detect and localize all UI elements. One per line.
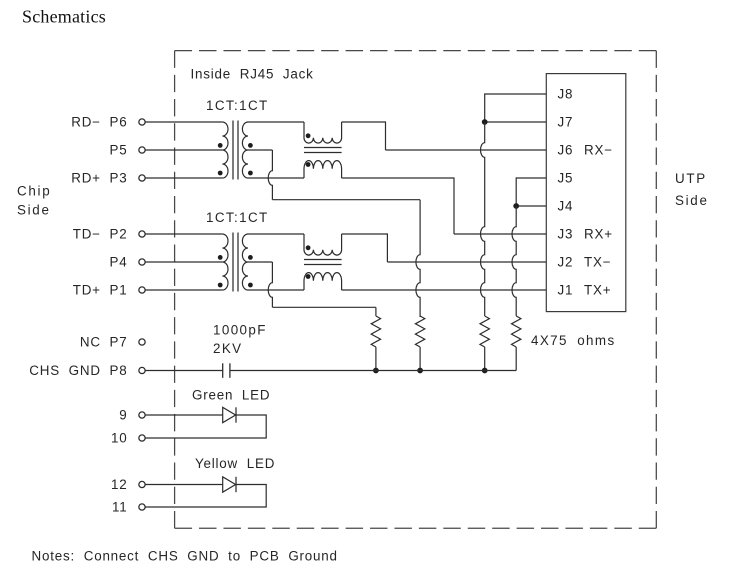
svg-text:J3: J3 <box>558 227 574 242</box>
transformer T1 primary dot upper <box>218 143 223 148</box>
svg-text:J4: J4 <box>558 199 574 214</box>
transformer T1 primary dot lower <box>218 171 223 176</box>
diode D2 yellow LED triangle <box>223 477 236 492</box>
wire P4 to T2 primary <box>145 261 222 263</box>
wire J5-J4 vertical down to R4 with hops <box>512 206 516 316</box>
wire choke L1 top out <box>342 122 386 150</box>
wire to J3 <box>454 233 546 235</box>
transformer T2 primary dot lower <box>218 283 223 288</box>
svg-text:1000pF: 1000pF <box>213 323 267 338</box>
pin circle P2 <box>139 231 145 237</box>
wire choke L2 bottom out to J1 <box>342 289 547 291</box>
wire choke L2 top out <box>342 234 388 262</box>
svg-text:J8: J8 <box>558 87 574 102</box>
wire J8 stub <box>485 94 547 122</box>
wire J4 stub <box>516 205 546 207</box>
svg-text:TD− P2: TD− P2 <box>73 227 128 242</box>
svg-text:J2: J2 <box>558 255 574 270</box>
svg-text:J5: J5 <box>558 171 574 186</box>
pin circle P5 <box>139 147 145 153</box>
svg-text:RD+ P3: RD+ P3 <box>71 171 127 186</box>
svg-text:TX+: TX+ <box>584 283 611 298</box>
diode D1 green LED triangle <box>223 407 236 422</box>
junction dot R2 rail <box>417 368 423 374</box>
transformer T1 primary winding <box>222 122 228 178</box>
transformer T1 core <box>232 121 234 180</box>
svg-text:CHS GND P8: CHS GND P8 <box>29 363 127 378</box>
wire T1 centre tap horizontal <box>272 199 420 201</box>
choke L1 top winding <box>304 122 342 143</box>
svg-text:RX+: RX+ <box>584 227 613 242</box>
svg-text:Yellow LED: Yellow LED <box>195 456 275 471</box>
svg-text:P5: P5 <box>110 143 128 158</box>
resistor R1 75 ohm <box>371 316 380 347</box>
svg-text:1CT:1CT: 1CT:1CT <box>206 210 269 225</box>
wire T2 secondary top to choke L2 <box>248 233 304 235</box>
transformer T2 secondary dot upper <box>248 255 253 260</box>
choke L2 bottom winding <box>304 273 342 290</box>
resistor R3 75 ohm <box>480 316 489 347</box>
svg-text:Notes: Connect CHS GND to PCB: Notes: Connect CHS GND to PCB Ground <box>32 549 338 564</box>
transformer T1 secondary dot upper <box>248 143 253 148</box>
svg-text:9: 9 <box>119 408 127 423</box>
pin circle P3 <box>139 175 145 181</box>
svg-text:2KV: 2KV <box>213 341 243 356</box>
wire D1 green LED cathode loop <box>145 415 266 438</box>
svg-text:Inside RJ45 Jack: Inside RJ45 Jack <box>191 67 314 82</box>
wire T1 secondary top to choke L1 <box>248 121 304 123</box>
wire J7 stub <box>485 121 547 123</box>
wire T2 centre tap <box>248 261 272 263</box>
transformer T1 secondary dot lower <box>248 171 253 176</box>
svg-text:Side: Side <box>675 193 709 208</box>
wire J8-J7 vertical down to R3 with hops <box>481 122 485 316</box>
wire J5 stub <box>516 178 546 206</box>
svg-text:J6: J6 <box>558 143 574 158</box>
svg-text:12: 12 <box>111 477 128 492</box>
wire T1 secondary bottom to choke L1 <box>248 177 304 179</box>
wire T1 centre tap drop with crossover hop <box>268 150 272 200</box>
svg-text:Side: Side <box>17 203 51 218</box>
wire P2 to T2 primary <box>145 233 222 235</box>
wire D2 yellow LED cathode loop <box>145 485 266 508</box>
svg-text:RD− P6: RD− P6 <box>71 115 127 130</box>
svg-text:Chip: Chip <box>17 184 51 199</box>
RJ45 connector block J <box>546 74 626 312</box>
choke L1 bottom winding <box>304 161 342 178</box>
svg-text:11: 11 <box>112 500 128 515</box>
transformer T1 secondary winding <box>242 122 248 178</box>
wire choke L1 bottom out <box>342 178 454 234</box>
svg-text:4X75 ohms: 4X75 ohms <box>531 333 616 348</box>
transformer T2 primary dot upper <box>218 255 223 260</box>
pin circle 12 <box>139 481 145 487</box>
resistor R4 75 ohm <box>512 316 521 347</box>
diode D1 green LED cathode bar <box>235 407 237 422</box>
transformer T2 primary winding <box>222 234 228 290</box>
wire P1 to T2 primary <box>145 289 222 291</box>
svg-text:RX−: RX− <box>584 143 613 158</box>
pin circle 10 <box>139 435 145 441</box>
svg-text:J7: J7 <box>558 115 574 130</box>
wire P5 to T1 primary <box>145 149 222 151</box>
svg-text:UTP: UTP <box>675 171 707 186</box>
wire T2 tap corner down to R1 <box>375 307 377 316</box>
wire to J2 <box>387 261 546 263</box>
pin circle P4 <box>139 259 145 265</box>
choke L2 top winding <box>304 234 342 255</box>
wire T2 centre tap horizontal <box>272 306 376 308</box>
choke L2 top winding dot <box>306 245 311 250</box>
wire pin to D2 yellow LED anode <box>145 484 222 486</box>
wire R1 to ground rail <box>375 347 377 371</box>
choke L2 bottom winding dot <box>306 274 311 279</box>
wire ground rail <box>230 370 516 372</box>
pin circle 11 <box>139 504 145 510</box>
wire R4 to ground rail corner <box>515 347 517 371</box>
svg-text:10: 10 <box>111 431 128 446</box>
svg-text:TD+ P1: TD+ P1 <box>73 283 128 298</box>
junction dot R1 rail <box>373 368 379 374</box>
junction dot J7/J8 <box>482 119 488 125</box>
svg-text:NC P7: NC P7 <box>80 335 128 350</box>
junction dot J4/J5 <box>513 203 519 209</box>
junction dot R3 rail <box>482 368 488 374</box>
pin circle 9 <box>139 412 145 418</box>
choke L1 bottom winding dot <box>306 162 311 167</box>
transformer T2 secondary dot lower <box>248 283 253 288</box>
wire R3 to ground rail <box>484 347 486 371</box>
transformer T2 secondary winding <box>242 234 248 290</box>
svg-text:P4: P4 <box>110 255 128 270</box>
wire T2 secondary bottom to choke L2 <box>248 289 304 291</box>
dashed RJ45 jack boundary box <box>175 51 657 529</box>
wire P6 to T1 primary <box>145 121 222 123</box>
wire T2 centre tap drop with crossover hop <box>268 262 272 307</box>
pin circle P6 <box>139 119 145 125</box>
wire P8 to capacitor C1 <box>145 370 222 372</box>
svg-text:1CT:1CT: 1CT:1CT <box>206 98 269 113</box>
wire P3 to T1 primary <box>145 177 222 179</box>
wire R2 to ground rail <box>419 347 421 371</box>
wire T1 centre tap <box>248 149 272 151</box>
diode D2 yellow LED cathode bar <box>235 477 237 492</box>
wire to J6 <box>386 149 547 151</box>
pin circle P8 <box>139 367 145 373</box>
wire pin to D1 green LED anode <box>145 414 222 416</box>
choke L1 top winding dot <box>306 133 311 138</box>
choke L1 core <box>304 147 342 149</box>
svg-text:Green LED: Green LED <box>192 388 270 403</box>
resistor R2 75 ohm <box>415 316 424 347</box>
choke L2 core <box>304 259 342 261</box>
wire centre-tap vertical down to R2 with hops <box>416 200 420 317</box>
svg-text:TX−: TX− <box>584 255 611 270</box>
transformer T2 core <box>232 233 234 292</box>
pin circle P1 <box>139 287 145 293</box>
capacitor C1 1000pF plates <box>222 363 224 378</box>
pin circle P7 <box>139 339 145 345</box>
svg-text:Schematics: Schematics <box>22 7 106 27</box>
svg-text:J1: J1 <box>558 283 574 298</box>
